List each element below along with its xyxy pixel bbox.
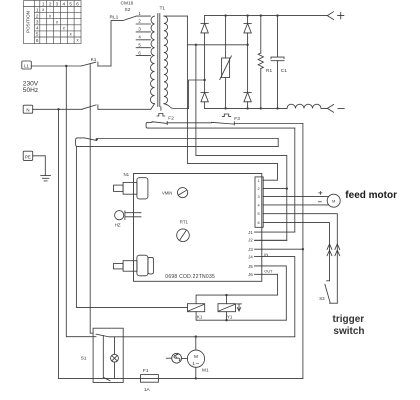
wire secondary top lead [164, 15, 188, 17]
svg-text:IN: IN [264, 252, 268, 257]
transformer T1 secondary winding [164, 16, 168, 104]
wire Y1 coil top drop [226, 295, 228, 304]
svg-text:RT1: RT1 [180, 220, 189, 225]
svg-text:3: 3 [36, 20, 39, 25]
valve coil Y1 [218, 304, 236, 312]
control board outline [134, 174, 262, 282]
wire RL1 riser [111, 21, 123, 66]
wire secondary bottom lead [164, 104, 189, 109]
switch S1 box [93, 328, 123, 382]
wire N line [33, 108, 82, 110]
wire + rail [205, 15, 328, 17]
thermal cutout F3 symbol [222, 114, 230, 117]
svg-text:S3: S3 [319, 296, 325, 301]
svg-text:F2: F2 [168, 115, 174, 121]
wire vertical from L1 junction [66, 66, 96, 337]
node interlock contact [96, 138, 98, 140]
svg-text:F1: F1 [143, 368, 149, 374]
svg-text:5: 5 [69, 1, 72, 6]
wire pin3 to feed motor plus [263, 195, 329, 197]
svg-text:1: 1 [42, 1, 45, 6]
terminal L1 [22, 61, 32, 69]
wire thermal line with F2 F3 contacts [148, 122, 303, 126]
svg-text:M: M [194, 354, 198, 360]
node Y1 bottom junction [225, 319, 227, 321]
wire vertical from N junction [58, 109, 60, 378]
potentiometer bottom [114, 255, 154, 276]
svg-text:0698 COD.22TN035: 0698 COD.22TN035 [165, 274, 215, 280]
node Y1 top junction [225, 294, 227, 296]
svg-text:CM16: CM16 [121, 0, 134, 6]
table diagonal x marks [42, 7, 79, 43]
wire M1 top [195, 337, 197, 351]
svg-text:6: 6 [36, 38, 39, 43]
transformer T1 primary winding [150, 16, 154, 104]
svg-text:L1: L1 [24, 64, 29, 69]
svg-text:feed motor: feed motor [345, 190, 397, 201]
wire K1 coil left lead [76, 147, 187, 308]
capacitor C1 [271, 16, 284, 109]
svg-text:J3: J3 [248, 247, 253, 252]
relay coil K1 [188, 304, 205, 312]
svg-text:K1: K1 [91, 57, 97, 63]
svg-text:50Hz: 50Hz [23, 87, 38, 94]
svg-text:2: 2 [36, 13, 39, 18]
svg-text:5: 5 [36, 32, 39, 37]
wire F2 probe tick [160, 107, 162, 110]
svg-text:J1: J1 [248, 230, 253, 235]
svg-text:trigger: trigger [333, 314, 365, 325]
wire AC2 riser [189, 80, 205, 109]
svg-text:4: 4 [36, 26, 39, 31]
wire board feed pin2 elbow [196, 155, 287, 240]
wire board feed pin1 elbow [187, 163, 277, 180]
svg-text:S2: S2 [125, 7, 131, 13]
node - rail junctions [224, 107, 278, 109]
ground [41, 176, 51, 181]
svg-text:Y1: Y1 [227, 314, 233, 319]
wire F2 loop return [146, 122, 295, 128]
trimmer VMIN [178, 188, 188, 198]
wire interlock loop top with contact [81, 138, 279, 141]
svg-text:M: M [332, 198, 335, 203]
wire interlock loop return [76, 138, 279, 147]
svg-text:K1: K1 [197, 314, 203, 319]
polarity marks feed motor [318, 191, 322, 202]
node M1 bottom junction [195, 377, 197, 379]
svg-text:HZ: HZ [115, 223, 121, 228]
svg-text:F3: F3 [234, 116, 240, 122]
wire L1 line [31, 65, 81, 67]
wire thermal line drop [302, 124, 304, 379]
potentiometer N1 [114, 178, 148, 199]
connector pin numbers [258, 178, 261, 225]
wire M1 bottom [195, 367, 197, 378]
diode D4 [244, 92, 251, 108]
wire coil bottom common [196, 312, 286, 321]
fan symbol [166, 353, 187, 363]
svg-text:VMIN: VMIN [162, 190, 172, 195]
motor M1 [187, 350, 204, 367]
wire primary bottom lead [151, 104, 155, 110]
wire pin2 stub [263, 188, 287, 190]
node L1/vertical junction [65, 65, 67, 67]
switch S3 [325, 281, 337, 303]
svg-text:2: 2 [49, 1, 52, 6]
contact S2 selector blade [123, 16, 137, 21]
wire AC1 drop [186, 16, 188, 163]
svg-text:N: N [26, 108, 29, 113]
lamp in S1 [111, 337, 119, 379]
node pin2 junction [286, 187, 288, 189]
node J3 junction [302, 248, 304, 250]
wire Y1 coil bottom drop [226, 312, 228, 321]
node N/vertical junction [57, 108, 59, 110]
gas valve arrow [237, 304, 242, 311]
node AC1 bridge junction [246, 44, 248, 46]
svg-text:T1: T1 [160, 5, 166, 11]
connector - output arrow [327, 105, 344, 113]
resistor R1 [258, 16, 263, 109]
svg-text:3: 3 [56, 1, 59, 6]
wire pin5 to trigger [263, 214, 337, 304]
svg-text:M1: M1 [202, 368, 209, 374]
svg-text:1: 1 [36, 7, 39, 12]
node M1 top junction [195, 335, 197, 337]
svg-text:5: 5 [258, 211, 260, 216]
wire - rail [205, 107, 287, 109]
node AC2 junction [203, 79, 205, 81]
led HZ [115, 211, 141, 220]
svg-text:4: 4 [63, 1, 66, 6]
transformer T1 core [158, 14, 160, 107]
trimmer RT1 [177, 229, 190, 242]
svg-text:switch: switch [333, 326, 364, 337]
label 230V 50Hz [23, 80, 39, 94]
inductor L [287, 104, 327, 108]
board connector CN [255, 177, 263, 227]
connector + output arrow [327, 12, 344, 20]
node + rail junctions [224, 14, 278, 16]
diode D3 [201, 92, 208, 108]
svg-text:PE: PE [25, 154, 31, 159]
transformer tap numbers [138, 11, 141, 56]
wire pin4 to feed motor minus [263, 204, 328, 206]
svg-text:R1: R1 [266, 68, 272, 74]
wire relay coil top common [196, 295, 278, 304]
contact K1 pole 1 [81, 62, 111, 66]
svg-text:C1: C1 [281, 68, 287, 74]
varistor [220, 16, 232, 109]
terminal PE [23, 151, 33, 160]
svg-text:N1: N1 [124, 172, 130, 177]
POSITION label (rotated) [26, 11, 31, 33]
svg-text:POSITION: POSITION [26, 11, 31, 33]
svg-text:J4: J4 [248, 255, 253, 260]
wire S1 right to J4 [109, 336, 294, 338]
terminal N [23, 105, 33, 113]
svg-text:J2: J2 [248, 238, 253, 243]
wire PE to earth [33, 156, 46, 176]
label trigger switch [333, 314, 365, 337]
svg-text:6: 6 [76, 1, 79, 6]
wire AC1 sense drop [195, 45, 197, 156]
svg-text:3: 3 [258, 194, 260, 199]
svg-text:2: 2 [258, 186, 260, 191]
table header numbers 1-6 [42, 1, 79, 6]
diode D2 [244, 16, 251, 93]
svg-text:J5: J5 [248, 264, 253, 269]
fuse F1 [141, 375, 159, 383]
node AC1 sense junction [195, 44, 197, 46]
svg-text:6: 6 [258, 220, 260, 225]
transformer T1 primary taps [136, 16, 150, 56]
wire loop drop to J1 [294, 128, 296, 232]
trigger wire arrows [327, 244, 340, 256]
svg-text:1A: 1A [144, 387, 151, 393]
svg-text:RL1: RL1 [110, 14, 119, 20]
svg-text:1: 1 [258, 178, 260, 183]
svg-text:~: ~ [196, 360, 200, 367]
svg-text:OUT: OUT [264, 268, 273, 273]
position table grid [24, 1, 82, 44]
thermal cutout F2 symbol [157, 114, 165, 117]
wire vertical from K1 blade to S1 [90, 64, 92, 333]
contact K1 pole 2 [82, 105, 151, 109]
svg-text:S1: S1 [81, 356, 87, 362]
diode D1 [201, 16, 208, 93]
wire pin6 to trigger [263, 223, 329, 281]
wire AC1 line [187, 44, 247, 46]
wire mains bottom [59, 377, 303, 379]
table row numbers 1-6 [36, 7, 39, 43]
feed motor M [327, 194, 340, 207]
svg-text:J6: J6 [248, 272, 253, 277]
